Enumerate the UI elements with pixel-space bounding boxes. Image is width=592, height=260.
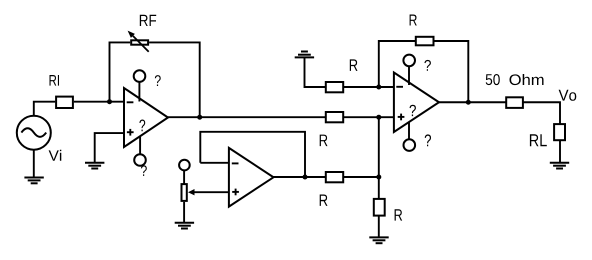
label R feedback	[410, 15, 417, 26]
ground at U1 + input	[85, 163, 104, 169]
wire feedback left rise	[110, 42, 131, 101]
op-amp U1	[124, 88, 168, 147]
wiper arrow to pot	[188, 189, 229, 195]
label ? U3 inner	[410, 105, 416, 116]
ground under source	[24, 178, 43, 184]
wire R mid to junction	[343, 176, 379, 178]
resistor R feedback U3	[416, 37, 434, 46]
label R at U3 -	[350, 59, 358, 71]
U3 bottom power pin	[404, 122, 416, 151]
resistor R at U3 -	[326, 82, 343, 92]
ground under RL	[550, 163, 569, 169]
node mid junction	[376, 175, 381, 180]
wire U3 feedback	[379, 41, 416, 87]
resistor R series to U3 +	[326, 112, 343, 122]
node U2 output feedback	[303, 175, 308, 180]
wire inverted ground to R minus	[305, 57, 326, 87]
ground under R vertical	[369, 237, 388, 243]
label Vo	[559, 90, 577, 101]
label RL	[530, 134, 547, 146]
wire feedback right drop	[434, 41, 469, 102]
wire ground to U1 non-inverting input	[95, 133, 124, 163]
label ? U3 top	[424, 60, 431, 71]
potentiometer at U2 +	[179, 160, 190, 223]
label 50 Ohm	[486, 74, 500, 85]
wire U3 output	[439, 101, 506, 103]
label R vertical	[395, 209, 403, 220]
label ? U1 top	[155, 75, 161, 86]
wire U2 inverting input	[200, 162, 229, 164]
wire feedback top right and drop to output	[149, 42, 200, 117]
wire U1 output to R series	[168, 116, 326, 118]
label R mid	[320, 195, 328, 206]
op-amp U3	[394, 73, 439, 133]
label ? U1 inner	[139, 120, 145, 132]
label Vi	[49, 150, 62, 161]
label RF	[140, 15, 156, 26]
wire RL to ground	[559, 140, 561, 162]
wire R to U3 inverting input	[343, 86, 394, 88]
node junction input/feedback	[107, 99, 112, 104]
node output U1	[197, 115, 202, 120]
label ? U3 bottom	[425, 134, 431, 146]
wire 50 Ohm to RL corner	[523, 102, 560, 124]
wire RI to op-amp U1 inverting input	[74, 101, 124, 103]
label RI	[50, 75, 60, 86]
node junction + line	[376, 115, 381, 120]
wire U2 feedback loop	[200, 132, 305, 177]
wire U2 output	[274, 176, 326, 178]
label R series	[320, 135, 328, 147]
U3 top power pin	[403, 55, 415, 85]
resistor RI	[56, 97, 73, 108]
voltage source Vi (AC)	[17, 116, 51, 150]
wire R vert to ground	[378, 216, 380, 238]
node U3 - junction	[376, 85, 381, 90]
U1 bottom power pin	[134, 136, 146, 166]
label ? U1 bottom	[141, 165, 147, 176]
wire source bottom to ground	[33, 150, 35, 178]
op-amp U2 follower	[229, 148, 274, 207]
resistor R mid	[326, 172, 343, 182]
wire source top to RI	[34, 102, 55, 116]
resistor R vertical	[374, 199, 385, 216]
wire junction down to R vert	[378, 177, 380, 199]
ground under pot	[175, 223, 194, 229]
wire junction up to + line	[378, 117, 380, 177]
resistor RF (variable)	[128, 31, 149, 52]
node U3 output	[466, 100, 471, 105]
wire R to U3 non-inverting input	[343, 116, 394, 118]
U1 top power pin	[134, 70, 146, 101]
ground inverted at U3 - input	[295, 52, 314, 58]
resistor 50 Ohm	[506, 97, 523, 108]
resistor RL	[554, 124, 565, 140]
